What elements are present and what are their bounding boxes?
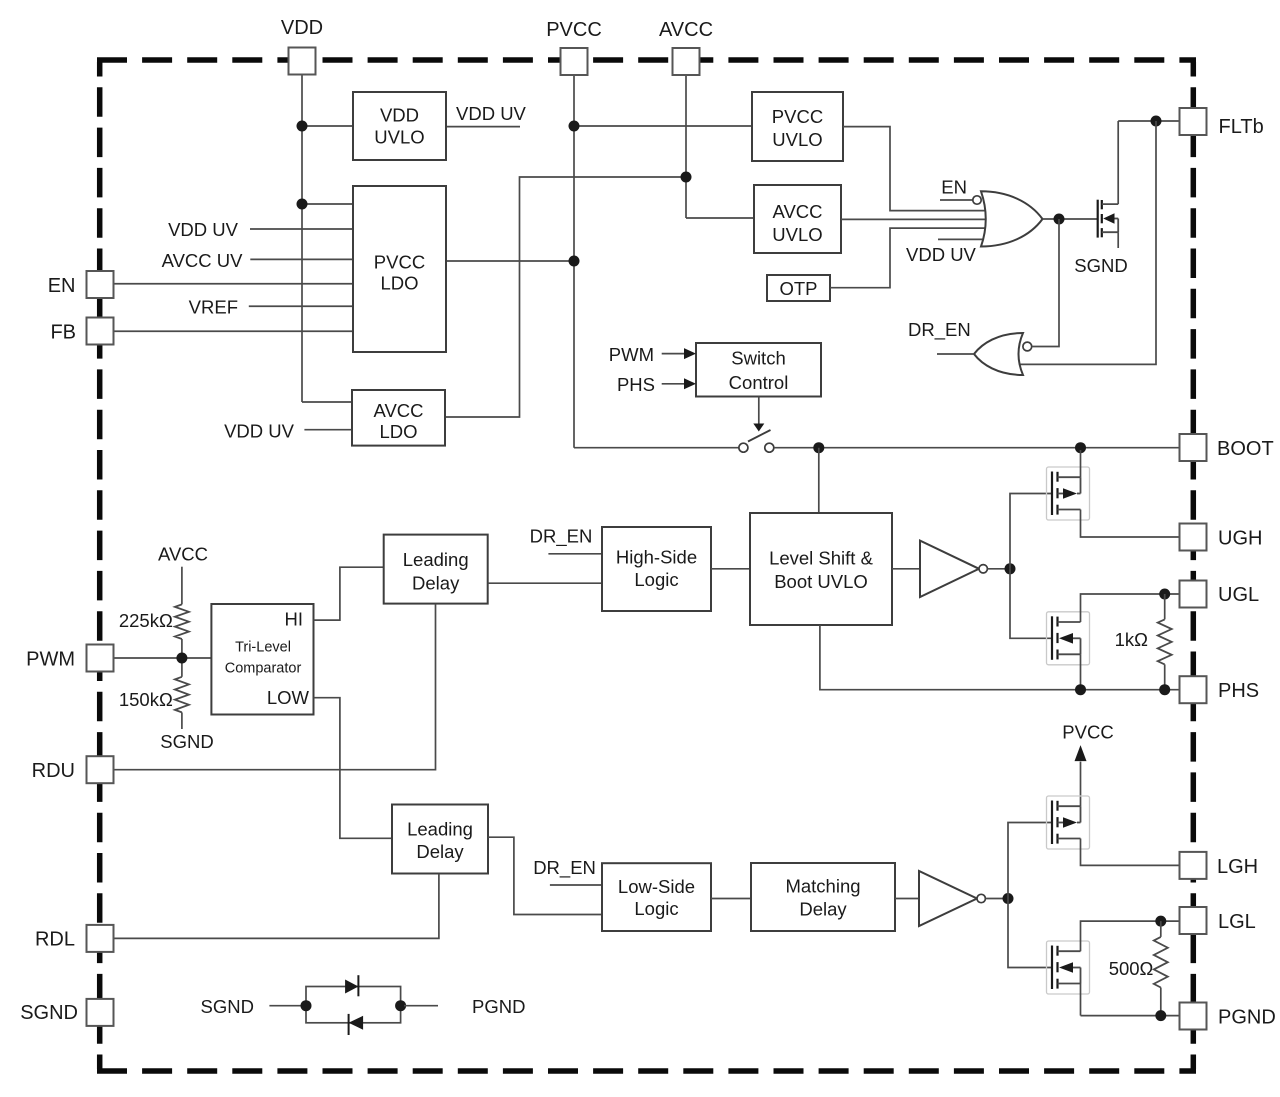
signal VDD UV into AVCC LDO <box>224 420 352 441</box>
wire Matching Delay to inverter U4 <box>895 898 919 900</box>
block Tri-Level Comparator <box>211 604 313 715</box>
svg-text:RDU: RDU <box>32 760 75 782</box>
svg-text:VREF: VREF <box>189 296 238 317</box>
signal AVCC UV into PVCC LDO <box>162 250 353 271</box>
svg-text:Delay: Delay <box>799 899 847 920</box>
wire FLTb feedback to OR2 <box>1019 121 1156 364</box>
wire RDL to lower Leading Delay <box>114 874 439 939</box>
transistor Q5 low-side NMOS driver <box>1047 941 1090 994</box>
wire Q1 drain to FLTb <box>1118 116 1179 205</box>
svg-text:Delay: Delay <box>412 572 460 593</box>
wire RDU to Leading Delay <box>114 604 436 770</box>
pin SGND <box>20 999 113 1026</box>
pin BOOT <box>1180 434 1274 461</box>
svg-text:LGH: LGH <box>1217 856 1258 878</box>
signal DR_EN output of U2 <box>908 319 974 354</box>
pin FB <box>50 318 113 345</box>
block Low-Side Logic <box>602 863 711 931</box>
svg-text:AVCC: AVCC <box>373 400 423 421</box>
svg-text:UGH: UGH <box>1218 528 1262 550</box>
wire Q3 drain to UGL rail <box>1081 589 1180 623</box>
svg-text:PVCC: PVCC <box>772 106 823 127</box>
svg-text:Logic: Logic <box>634 569 678 590</box>
svg-text:Comparator: Comparator <box>225 661 302 677</box>
svg-text:DR_EN: DR_EN <box>530 525 593 547</box>
signal VDD UV input to OR gate <box>906 239 984 265</box>
svg-text:Leading: Leading <box>403 549 469 570</box>
pin PGND <box>1180 1003 1276 1030</box>
wire OR gate output to FLTb pulldown gate <box>1043 214 1098 225</box>
svg-text:Boot UVLO: Boot UVLO <box>774 571 868 592</box>
wire EN input to PVCC LDO <box>114 283 354 285</box>
svg-text:UVLO: UVLO <box>374 127 424 148</box>
svg-text:VDD UV: VDD UV <box>168 219 239 240</box>
svg-text:500Ω: 500Ω <box>1109 958 1154 979</box>
pin FLTb <box>1180 108 1264 138</box>
signal PHS into Switch Control <box>617 374 696 395</box>
transistor Q2 high-side PMOS driver <box>1047 467 1090 520</box>
block Switch Control <box>696 343 821 397</box>
wire gate drive to Q5 <box>1008 899 1052 968</box>
wire U3 output node <box>987 563 1015 574</box>
wire Level Shift to inverter U3 <box>892 568 920 570</box>
svg-text:Low-Side: Low-Side <box>618 876 695 897</box>
wire VDD net vertical <box>297 75 354 403</box>
svg-text:1kΩ: 1kΩ <box>1115 629 1149 650</box>
resistor R2 150k <box>119 658 189 729</box>
wire U2 inverted input from fault node <box>1032 219 1059 347</box>
signal VREF into PVCC LDO <box>189 296 353 317</box>
wire FB input to PVCC LDO <box>114 330 354 332</box>
svg-text:VDD UV: VDD UV <box>224 420 295 441</box>
wire Q5 drain to LGL rail <box>1081 916 1180 952</box>
block VDD UVLO <box>353 92 446 160</box>
pin LGH <box>1180 852 1259 879</box>
signal DR_EN into Low-Side Logic <box>533 857 602 885</box>
svg-text:UGL: UGL <box>1218 584 1259 606</box>
svg-text:LDO: LDO <box>379 421 417 442</box>
svg-text:Delay: Delay <box>416 841 464 862</box>
svg-text:Tri-Level: Tri-Level <box>235 640 291 656</box>
power PVCC arrow at Q4 drain <box>1062 721 1113 806</box>
transistor Q1 FLTb open-drain NMOS <box>1098 200 1119 238</box>
switch S1 boot switch <box>739 430 774 452</box>
block Leading Delay upper <box>384 535 488 604</box>
transistor Q4 low-side PMOS driver <box>1047 796 1090 849</box>
resistor R3 1k <box>1115 594 1172 690</box>
wire PGND rail <box>1081 984 1180 1022</box>
svg-text:AVCC: AVCC <box>772 201 822 222</box>
svg-text:Matching: Matching <box>785 876 860 897</box>
signal PWM into Switch Control <box>609 344 696 365</box>
svg-text:Control: Control <box>729 372 789 393</box>
ground clamp SGND-PGND antiparallel diodes <box>201 987 526 1023</box>
wire HI output to Leading Delay <box>314 567 384 620</box>
svg-text:Switch: Switch <box>731 347 786 368</box>
pin RDU <box>32 756 114 783</box>
wire Low-Side Logic to Matching Delay <box>711 898 751 900</box>
svg-text:DR_EN: DR_EN <box>533 857 596 879</box>
svg-text:225kΩ: 225kΩ <box>119 610 173 631</box>
block AVCC UVLO <box>754 185 841 253</box>
svg-text:SGND: SGND <box>160 731 213 752</box>
block Level Shift Boot UVLO <box>750 513 892 625</box>
svg-text:VDD UV: VDD UV <box>456 103 527 124</box>
resistor R4 500 <box>1109 921 1168 1016</box>
svg-text:PVCC: PVCC <box>1062 721 1113 742</box>
wire PVCC UVLO output to OR gate <box>843 127 985 211</box>
block PVCC UVLO <box>752 92 843 161</box>
IC boundary dashed border <box>97 57 1196 63</box>
pin PHS <box>1180 676 1260 703</box>
signal DR_EN into High-Side Logic <box>530 525 602 553</box>
wire PHS rail <box>820 625 1180 695</box>
diode D2 reverse <box>349 1014 364 1035</box>
svg-text:BOOT: BOOT <box>1217 438 1274 460</box>
svg-text:LGL: LGL <box>1218 911 1256 933</box>
block OTP <box>767 275 830 301</box>
svg-text:VDD: VDD <box>380 105 419 126</box>
svg-text:OTP: OTP <box>779 278 817 299</box>
svg-text:LDO: LDO <box>380 273 418 294</box>
svg-text:PVCC: PVCC <box>546 19 602 41</box>
resistor R1 225k <box>119 567 189 658</box>
wire Switch Control output arrow <box>753 397 764 432</box>
pin VDD <box>281 17 323 75</box>
signal VDD UV into PVCC LDO <box>168 219 353 240</box>
block Leading Delay lower <box>392 805 488 874</box>
wire AVCC UVLO output to OR gate <box>841 218 986 220</box>
transistor Q3 high-side NMOS driver <box>1047 612 1090 665</box>
wire PWM input to comparator <box>114 653 212 664</box>
wire gate drive to Q2 <box>1010 494 1052 569</box>
svg-text:150kΩ: 150kΩ <box>119 689 173 710</box>
svg-text:AVCC UV: AVCC UV <box>162 250 244 271</box>
pin PWM <box>26 645 113 672</box>
pin LGL <box>1180 907 1256 934</box>
pin EN <box>48 271 114 298</box>
svg-text:SGND: SGND <box>201 996 254 1017</box>
svg-text:PWM: PWM <box>26 649 75 671</box>
wire lower Leading Delay to Low-Side Logic <box>488 837 602 914</box>
pin UGH <box>1180 524 1263 551</box>
svg-text:High-Side: High-Side <box>616 547 697 568</box>
svg-text:Level Shift &: Level Shift & <box>769 548 874 569</box>
svg-text:UVLO: UVLO <box>772 129 822 150</box>
svg-text:Logic: Logic <box>634 898 678 919</box>
wire LOW output to lower Leading Delay <box>314 698 393 839</box>
svg-text:EN: EN <box>48 275 76 297</box>
svg-text:AVCC: AVCC <box>659 19 713 41</box>
svg-text:PHS: PHS <box>1218 680 1259 702</box>
svg-text:FLTb: FLTb <box>1219 116 1264 138</box>
svg-text:UVLO: UVLO <box>772 224 822 245</box>
wire VDD UVLO output VDD UV <box>446 103 527 126</box>
wire OTP output to OR gate <box>830 228 985 288</box>
wire Q2 drain to BOOT <box>1080 450 1082 477</box>
diode D1 forward <box>345 975 358 996</box>
wire BOOT rail <box>774 442 1180 513</box>
svg-text:PWM: PWM <box>609 344 654 365</box>
svg-text:DR_EN: DR_EN <box>908 319 971 341</box>
svg-text:FB: FB <box>50 322 76 344</box>
svg-text:EN: EN <box>941 177 967 198</box>
svg-text:RDL: RDL <box>35 929 75 951</box>
svg-text:SGND: SGND <box>20 1002 78 1024</box>
inverter U3 high-side driver <box>920 541 987 597</box>
svg-text:LOW: LOW <box>267 687 310 708</box>
wire U4 output node <box>985 893 1013 904</box>
block Matching Delay <box>751 863 895 931</box>
block PVCC LDO <box>353 186 446 352</box>
signal EN inverted input to OR gate <box>940 177 981 205</box>
svg-text:VDD: VDD <box>281 17 323 39</box>
block High-Side Logic <box>602 527 711 611</box>
svg-text:Leading: Leading <box>407 819 473 840</box>
pin RDL <box>35 925 114 952</box>
wire Q1 source stub <box>1117 232 1119 248</box>
wire Leading Delay to High-Side Logic <box>488 582 602 584</box>
or-gate U1 fault OR (5-input) <box>981 191 1043 246</box>
wire AVCC net <box>445 75 754 417</box>
svg-text:VDD UV: VDD UV <box>906 244 977 265</box>
svg-text:AVCC: AVCC <box>158 543 208 564</box>
wire Q4 source to LGH <box>1081 839 1180 866</box>
svg-text:SGND: SGND <box>1074 255 1127 276</box>
wire gate drive to Q4 <box>1008 823 1052 899</box>
block AVCC LDO <box>352 390 445 446</box>
svg-text:PVCC: PVCC <box>374 252 425 273</box>
svg-text:HI: HI <box>285 608 304 629</box>
svg-text:PGND: PGND <box>472 996 525 1017</box>
pin AVCC <box>659 19 713 75</box>
svg-text:PHS: PHS <box>617 374 655 395</box>
wire PVCC net vertical <box>446 75 752 448</box>
svg-text:PGND: PGND <box>1218 1007 1276 1029</box>
inverter U4 low-side driver <box>919 871 985 926</box>
wire High-Side Logic to Level Shift <box>711 568 750 570</box>
wire gate drive to Q3 <box>1010 569 1052 639</box>
wire Q2 source to UGH <box>1081 510 1180 538</box>
or-gate U2 DR_EN mirrored OR with inverted input <box>974 333 1032 375</box>
pin PVCC <box>546 19 602 75</box>
pin UGL <box>1180 581 1260 608</box>
